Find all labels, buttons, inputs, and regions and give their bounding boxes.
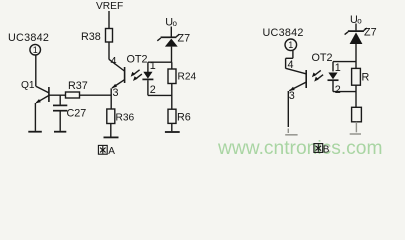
svg-text:R37: R37 xyxy=(68,80,88,92)
svg-text:2: 2 xyxy=(335,84,341,96)
svg-text:1: 1 xyxy=(288,40,293,50)
svg-text:Z7: Z7 xyxy=(364,27,377,39)
svg-text:C27: C27 xyxy=(67,108,87,120)
svg-text:4: 4 xyxy=(111,56,117,68)
svg-text:1: 1 xyxy=(150,60,156,72)
svg-text:R36: R36 xyxy=(116,113,135,124)
svg-text:Z7: Z7 xyxy=(178,33,191,45)
svg-text:R38: R38 xyxy=(81,31,101,43)
svg-text:R24: R24 xyxy=(178,72,197,83)
svg-text:UC3842: UC3842 xyxy=(8,32,49,44)
svg-text:Q1: Q1 xyxy=(21,80,35,91)
svg-text:o: o xyxy=(173,19,178,28)
svg-text:OT2: OT2 xyxy=(312,52,333,64)
svg-text:OT2: OT2 xyxy=(127,54,148,66)
svg-text:UC3842: UC3842 xyxy=(263,27,304,39)
svg-text:VREF: VREF xyxy=(96,1,123,12)
svg-text:A: A xyxy=(108,146,115,157)
svg-text:3: 3 xyxy=(113,87,119,99)
svg-text:4: 4 xyxy=(288,59,294,71)
svg-text:3: 3 xyxy=(289,90,295,102)
svg-text:2: 2 xyxy=(150,84,156,96)
svg-text:B: B xyxy=(323,144,330,155)
svg-text:o: o xyxy=(357,17,362,26)
svg-text:R: R xyxy=(362,72,370,84)
svg-text:1: 1 xyxy=(335,62,341,74)
svg-text:www.cntronics.com: www.cntronics.com xyxy=(217,138,383,159)
svg-text:1: 1 xyxy=(33,45,38,55)
svg-text:R6: R6 xyxy=(177,112,191,124)
